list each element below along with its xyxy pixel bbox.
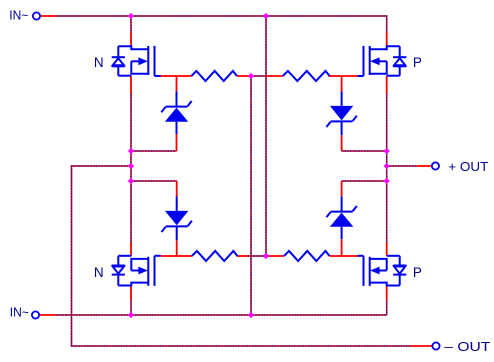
svg-text:IN~: IN~ — [10, 304, 29, 319]
svg-text:N: N — [94, 265, 104, 280]
svg-text:– OUT: – OUT — [444, 339, 490, 354]
svg-text:N: N — [94, 55, 104, 70]
svg-text:P: P — [413, 55, 422, 70]
svg-text:IN~: IN~ — [9, 7, 28, 22]
svg-text:+ OUT: + OUT — [448, 159, 488, 174]
svg-text:P: P — [413, 265, 422, 280]
